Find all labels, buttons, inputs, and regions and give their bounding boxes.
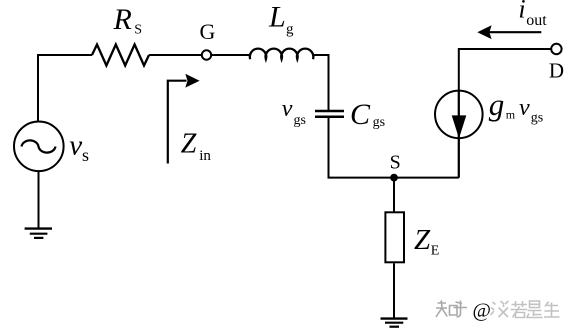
svg-text:Z: Z <box>181 129 197 160</box>
svg-text:gs: gs <box>531 110 543 125</box>
svg-text:R: R <box>113 3 132 36</box>
svg-text:S: S <box>390 151 401 173</box>
svg-text:Z: Z <box>414 224 431 256</box>
svg-text:g: g <box>489 87 505 122</box>
svg-text:@: @ <box>473 300 491 322</box>
svg-text:G: G <box>200 19 216 44</box>
svg-text:g: g <box>286 22 294 38</box>
svg-text:L: L <box>268 0 286 33</box>
svg-text:v: v <box>69 130 82 162</box>
svg-text:out: out <box>526 12 547 29</box>
svg-text:i: i <box>518 0 525 24</box>
svg-text:v: v <box>519 95 530 121</box>
svg-text:D: D <box>549 59 564 83</box>
svg-text:s: s <box>82 145 89 165</box>
svg-text:gs: gs <box>373 115 385 130</box>
svg-text:gs: gs <box>294 113 306 128</box>
svg-text:in: in <box>199 148 211 164</box>
svg-text:m: m <box>506 107 516 121</box>
svg-text:S: S <box>134 23 142 38</box>
svg-text:E: E <box>431 244 440 259</box>
svg-text:C: C <box>350 98 371 131</box>
svg-text:v: v <box>282 96 293 122</box>
